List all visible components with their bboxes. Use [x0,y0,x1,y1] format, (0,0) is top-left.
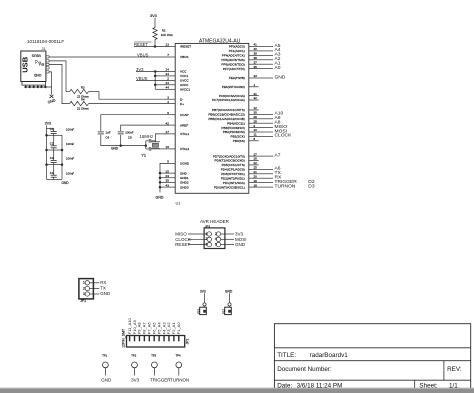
wire bus to VCC1 pin 34 [155,75,169,77]
title block row divider 2 [274,360,470,362]
title block outer frame [274,324,470,391]
junction rung1 left [45,134,48,137]
svg-text:40: 40 [254,47,258,51]
connector JP3 pin 2 circle [216,232,220,236]
svg-text:A7: A7 [275,152,281,158]
svg-text:10118194-0001LF: 10118194-0001LF [27,39,64,44]
wire / net label GND at U1 pin 33 [259,74,286,80]
wire F12 to mini connector JP5 [229,293,231,303]
svg-text:PF1(ADC1): PF1(ADC1) [229,49,245,53]
junction 3V3 bus at AVCC [154,84,157,87]
svg-text:C8: C8 [128,136,132,140]
svg-text:GND: GND [101,377,112,382]
wire VBUS to UVCC pin 2 [136,79,170,81]
svg-text:PD3(INT3/TXD1): PD3(INT3/TXD1) [221,172,245,176]
wire rung 3 [47,164,63,166]
svg-text:C1: C1 [50,127,54,131]
U1 pin 39 PF4(ADC4/TCK) stub and number [222,52,259,58]
wire XTAL2 from U1 pin 16 [155,148,169,150]
svg-text:100nF: 100nF [125,131,133,135]
svg-text:PB3(PDO/MISO): PB3(PDO/MISO) [221,126,244,130]
wire / net label A7 at U1 pin 27 [259,152,281,158]
svg-text:31: 31 [254,92,258,96]
U1 pin 36 PF7(ADC7/TDI) stub and number [223,65,259,71]
svg-text:PF4(ADC4/TCK): PF4(ADC4/TCK) [222,54,245,58]
svg-text:37: 37 [254,60,258,64]
junction ground rail at crystal [145,144,148,147]
svg-text:GND: GND [225,289,233,293]
svg-text:MISO: MISO [175,232,187,237]
wire / net label A8 at U1 pin 28 [259,120,281,126]
svg-text:14: 14 [166,68,170,72]
wire rung 4 bottom [47,178,63,180]
svg-text:PD6(T1/ADC9/OC4D): PD6(T1/ADC9/OC4D) [215,159,245,163]
svg-text:2: 2 [215,232,217,236]
svg-text:TITLE:: TITLE: [277,352,296,359]
wire rung 2 [47,149,63,151]
U1 pin 35 GND2 stub and number [166,179,189,185]
svg-text:GND: GND [180,171,188,175]
U1 pin 29 PB5(OC1A/ADC12/OC4B) stub and number [208,115,258,121]
svg-text:XTAL1: XTAL1 [180,132,190,136]
svg-text:2: 2 [83,286,85,290]
svg-text:GND1: GND1 [180,176,189,180]
U1 pin 33 PE2(/HWB) stub and number [229,74,259,80]
svg-text:33: 33 [254,74,258,78]
svg-text:PD7(OC4D/ADC10/T0): PD7(OC4D/ADC10/T0) [213,154,245,158]
wire bus to AVCC pin 24 [155,84,169,86]
connector JP2 pin F3_A2 stub [168,336,170,341]
title block row divider 1 [274,347,470,349]
svg-text:GND: GND [33,73,41,77]
resistor R4 22 Ohms [70,101,170,105]
U1 pin 25 PD4(ICP1/ADC8) stub and number [221,166,259,172]
U1 pin 27 PD7(OC4D/ADC10/T0) stub and number [213,152,259,158]
svg-text:D-: D- [180,97,183,101]
svg-text:Document Number:: Document Number: [277,366,332,373]
svg-text:VCC: VCC [180,70,187,74]
svg-text:29: 29 [254,115,258,119]
svg-text:PB4(ADC11): PB4(ADC11) [227,121,245,125]
junction rung3 left [45,163,48,166]
svg-text:10: 10 [254,128,258,132]
wire / net label MISO at U1 pin 9 [259,124,287,130]
wire / net label A0 at U1 pin 36 [259,65,281,71]
svg-text:1: 1 [83,281,85,285]
wire bus to GND2 pin 35 [160,181,170,183]
title block Sheet divider [414,380,416,391]
svg-text:TURNON: TURNON [275,183,296,189]
svg-text:17: 17 [166,130,170,134]
svg-text:JP1: JP1 [80,299,86,303]
svg-text:28: 28 [254,119,258,123]
wire rung 1 [47,134,63,136]
connector J1 pin 2 pad [46,60,49,62]
U1 pin 9 PB3(PDO/MISO) stub and number [221,124,258,130]
svg-text:TURNON: TURNON [170,377,189,382]
svg-text:/RESET: /RESET [180,45,191,49]
wire JP3 pin 6 to GND [221,244,234,246]
U1 pin 43 GND3 stub and number [166,183,189,189]
U1 pin 12 PB7(OC0A/OC1C/RTS) stub and number [212,106,259,112]
svg-text:C4: C4 [50,171,54,175]
svg-text:TP1: TP1 [102,354,107,358]
svg-text:42: 42 [166,121,170,125]
svg-text:F1_A0: F1_A0 [176,322,181,335]
svg-text:D+: D+ [180,102,184,106]
U1 pin 44 AVCC1 stub and number [166,86,191,92]
wire D+ from J1 to R4 [49,64,70,103]
junction 3V3 bus at VCC1 [154,75,157,78]
svg-text:100nF: 100nF [66,127,74,131]
svg-text:25: 25 [254,166,258,170]
wire bus to GND3 pin 43 [160,186,170,188]
wire JP1 pin 3 to GND [90,293,100,295]
svg-text:TP4: TP4 [176,354,181,358]
wire cap bank top jog [47,127,54,129]
wire / net label A1 at U1 pin 37 [259,61,281,67]
connector JP2 pin F1_A0 stub [178,336,180,341]
svg-text:UVCC: UVCC [180,79,190,83]
U1 pin 42 AREF stub and number [166,121,189,127]
svg-text:18: 18 [254,183,258,187]
U1 pin 30 PB6(OC1B/OC4B/ADC13) stub and number [208,111,258,117]
svg-text:35: 35 [166,179,170,183]
wire cap bank right rail [61,135,63,179]
wire / net label A3 at U1 pin 39 [259,52,281,58]
connector J1 pin 1 pad [46,56,49,58]
connector JP2 pin F6_A5 stub [153,336,155,341]
resistor R3 22 Ohms [66,89,99,93]
svg-text:radarBoardv1: radarBoardv1 [310,352,349,359]
connector JP2 pin F9_A8 stub [138,336,140,341]
svg-text:GND3: GND3 [180,185,189,189]
U1 pin 1 PE6(INT.6/AIN0) stub and number [222,83,259,89]
svg-text:PF5(ADC5/TMS): PF5(ADC5/TMS) [221,58,244,62]
junction rung2 right [61,149,64,152]
svg-text:GND: GND [62,181,70,185]
svg-text:AVCC1: AVCC1 [180,88,190,92]
junction rung2 left [45,149,48,152]
capacitor C2 100nF [51,135,57,150]
capacitor C7 load cap top [146,139,156,143]
U1 pin 34 VCC1 stub and number [166,72,189,78]
svg-text:PF0(ADC0): PF0(ADC0) [229,45,245,49]
U1 pin 28 PB4(ADC11) stub and number [227,119,259,125]
U1 pin 7 VBUS stub and number [167,53,188,59]
wire bus to GND1 pin 23 [160,177,170,179]
svg-text:3V3: 3V3 [150,14,157,18]
wire bus to GND pin 15 [160,172,170,174]
U1 pin 18 PD0(INT0/OC0B/SCL) stub and number [214,183,259,189]
svg-text:1uF: 1uF [106,131,111,135]
resistor R2 10K Ohm [153,28,157,40]
svg-text:PC6(OC3A/OC4A): PC6(OC3A/OC4A) [219,94,245,98]
wire load caps ground rail [145,141,147,149]
wire RESET to JP3 pin 5 [188,244,207,246]
connector JP4 pin 2 pad [203,310,206,313]
svg-text:ATMEGA32U4-AU: ATMEGA32U4-AU [199,39,241,45]
U1 pin 17 XTAL1 stub and number [166,130,190,136]
title block REV divider [443,361,445,381]
wire / net label MOSI at U1 pin 10 [259,128,287,134]
svg-text:PD2(INT2/RXD1): PD2(INT2/RXD1) [221,176,245,180]
svg-text:D3: D3 [308,183,315,189]
junction rung3 right [61,163,64,166]
svg-text:11: 11 [254,133,257,137]
connector J1 pin 4 pad [46,67,49,69]
junction at GND2 [159,181,162,184]
svg-text:TP2: TP2 [131,354,136,358]
svg-text:3V3: 3V3 [45,122,51,126]
wire AREF net from U1 pin 42 [121,125,170,131]
connector JP2 pin F7_A6 stub [148,336,150,341]
svg-text:26: 26 [254,157,258,161]
svg-text:100nF: 100nF [66,157,74,161]
U1 pin 8 PB0(SS) stub and number [233,137,259,143]
svg-text:4: 4 [215,237,217,241]
IC U1 ATMEGA32U4-AU microcontroller body [175,43,249,193]
svg-text:27: 27 [254,152,258,156]
svg-text:PD4(ICP1/ADC8): PD4(ICP1/ADC8) [221,168,245,172]
svg-text:GND: GND [111,147,119,151]
svg-text:JP2: JP2 [186,338,190,344]
svg-text:PB1(SCK): PB1(SCK) [231,135,245,139]
U1 pin 41 PF0(ADC0) stub and number [229,43,259,49]
wire / net label A5 at U1 pin 41 [259,43,281,49]
wire RESET net to U1 pin 13 [134,46,170,48]
svg-text:24: 24 [166,81,170,85]
svg-text:C3: C3 [50,156,54,160]
svg-text:U1: U1 [176,201,182,206]
svg-text:10K Ohm: 10K Ohm [161,33,174,37]
connector JP3 pin 4 circle [216,237,220,241]
svg-text:PD5(XCK1/CTS): PD5(XCK1/CTS) [222,163,245,167]
svg-text:100nF: 100nF [66,171,74,175]
U1 pin 5 UGND stub and number [167,160,190,166]
svg-text:AVCC: AVCC [180,83,189,87]
wire JP1 pin 1 to RX [90,282,100,284]
junction at GND pin 15 [159,172,162,175]
wire JP1 pin 2 to TX [90,287,100,289]
connector JP5 pin 1 circle [228,303,231,306]
svg-text:6: 6 [215,243,217,247]
svg-text:PB5(OC1A/ADC12/OC4B): PB5(OC1A/ADC12/OC4B) [208,117,244,121]
wire / net label A4 at U1 pin 40 [259,47,281,53]
power bus 3V3 vertical [154,72,156,90]
svg-text:23: 23 [166,174,170,178]
svg-text:PB6(OC1B/OC4B/ADC13): PB6(OC1B/OC4B/ADC13) [208,113,244,117]
svg-text:PE2(/HWB): PE2(/HWB) [229,76,245,80]
svg-text:PB0(SS): PB0(SS) [233,139,245,143]
connector JP3 pin 1 circle [207,232,211,236]
connector J1 pin 3 pad [46,63,49,65]
wire / net label A10 at U1 pin 30 [259,111,284,117]
U1 pin 37 PF6(ADC6/TDO) stub and number [221,60,258,66]
svg-text:39: 39 [254,52,258,56]
svg-text:MOSI: MOSI [235,237,247,242]
U1 pin 16 XTAL2 stub and number [166,145,190,151]
connector J1 USB body [21,51,46,82]
svg-text:3V3: 3V3 [235,232,244,237]
svg-text:36: 36 [254,65,258,69]
svg-text:GND: GND [235,242,246,247]
wire XTAL1 from U1 pin 17 [155,134,169,142]
svg-text:XTAL2: XTAL2 [180,147,190,151]
wire JP3 pin 4 to MOSI [221,238,234,240]
wire ground bus vertical [159,173,161,192]
U1 pin 24 AVCC stub and number [166,81,190,87]
svg-text:32: 32 [254,96,258,100]
svg-text:22 Ohms: 22 Ohms [77,106,89,110]
svg-text:CLOCK: CLOCK [275,133,293,139]
svg-text:3V3: 3V3 [131,377,140,382]
connector JP2 pin F4_A3 stub [163,336,165,341]
wire / net label A9 at U1 pin 29 [259,115,281,121]
wire / net label TX at U1 pin 21 [259,170,282,176]
U1 pin 21 PD3(INT3/TXD1) stub and number [221,170,258,176]
capacitor C3 100nF [51,150,57,165]
connector JP1 pin 3 circle [85,292,89,296]
svg-text:GND: GND [156,195,164,199]
wire UGND pin 5 to ground bus [160,163,170,173]
connector JP3 pin 6 circle [216,242,220,246]
net label RESET with overbar [134,42,152,47]
wire R2 to RESET net [154,40,156,47]
connector JP2 pin F2_A1 stub [173,336,175,341]
junction C5 ground [119,144,122,147]
svg-text:PD1(INT1/SDA): PD1(INT1/SDA) [223,181,245,185]
wire 3V3 to VCC pin 14 [136,71,170,73]
wire J1 GND pin to ground [49,72,52,95]
junction on RESET net [154,45,157,48]
capacitor C4 100nF [51,165,57,180]
U1 pin 6 UCAP stub and number [167,111,188,117]
svg-text:PB7(OC0A/OC1C/RTS): PB7(OC0A/OC1C/RTS) [212,108,245,112]
svg-text:43: 43 [166,183,170,187]
svg-text:PB2(PDI/MOSI): PB2(PDI/MOSI) [223,130,245,134]
title block row divider 3 [274,379,470,381]
svg-text:TP3: TP3 [151,354,156,358]
U1 pin 23 GND1 stub and number [166,174,189,180]
connector J1 shield pins [24,85,46,88]
connector JP1 body [79,279,94,299]
connector J1 pin 5 pad [46,71,49,73]
U1 pin 19 PD1(INT1/SDA) stub and number [223,179,259,185]
svg-text:VCC1: VCC1 [180,74,189,78]
wire CLOCK to JP3 pin 3 [188,238,207,240]
connector JP3 pin 3 circle [207,237,211,241]
svg-text:12PIN_SMT: 12PIN_SMT [122,328,126,348]
svg-text:VBUS: VBUS [180,55,188,59]
U1 pin 40 PF1(ADC1) stub and number [229,47,259,53]
wire / net label TRIGGER at U1 pin 19 [259,179,298,185]
svg-text:RESET: RESET [134,42,148,47]
svg-text:30: 30 [254,111,258,115]
svg-text:PC7(ICP3/CLK0/OC4A): PC7(ICP3/CLK0/OC4A) [212,98,245,102]
svg-text:F12: F12 [221,309,225,314]
connector JP2 pin F11_A10 stub [129,336,131,341]
junction 3V3 bus at VCC [154,70,157,73]
svg-text:RX: RX [100,280,106,285]
svg-text:GND2: GND2 [180,181,189,185]
svg-text:34: 34 [166,72,170,76]
wire VBUS net from J1 to U1 [49,56,170,58]
svg-text:R2: R2 [162,29,166,33]
wire C6 to ground rail [101,135,146,146]
svg-text:16MHz: 16MHz [140,134,154,139]
svg-text:VBUS: VBUS [137,52,149,57]
svg-text:16: 16 [166,145,170,149]
svg-text:UCAP: UCAP [180,113,189,117]
connector JP1 pin 1 circle [85,281,89,285]
svg-text:3: 3 [83,292,85,296]
U1 pin 15 GND stub and number [166,169,188,175]
svg-text:13: 13 [166,43,170,47]
svg-text:A0: A0 [275,65,281,71]
test point TP4 [176,362,182,376]
connector JP2 pin F10_A9 stub [134,336,136,341]
wire J1 shield row to ground drop [26,86,52,88]
svg-text:19: 19 [254,179,258,183]
svg-text:TRIGGER: TRIGGER [150,377,171,382]
wire F13 to mini connector JP4 [204,293,206,303]
svg-text:15: 15 [166,169,170,173]
svg-text:VBUS: VBUS [31,54,41,58]
U1 pin 32 PC7(ICP3/CLK0/OC4A) stub and number [212,96,259,102]
U1 pin 38 PF5(ADC5/TMS) stub and number [221,56,258,62]
test point TP1 [103,362,109,376]
connector JP3 pin 5 circle [207,242,211,246]
svg-text:F13: F13 [196,309,200,314]
svg-text:22: 22 [254,161,258,165]
svg-text:44: 44 [166,86,170,90]
svg-text:21: 21 [254,170,258,174]
svg-text:PF6(ADC6/TDO): PF6(ADC6/TDO) [221,62,244,66]
U1 pin 4 D+ stub and number [167,100,184,106]
svg-text:R4: R4 [81,98,85,102]
svg-text:PF7(ADC7/TDI): PF7(ADC7/TDI) [223,67,245,71]
U1 pin 13 /RESET stub and number [166,43,192,49]
junction at GND1 [159,177,162,180]
U1 pin 31 PC6(OC3A/OC4A) stub and number [219,92,259,98]
svg-text:Y1: Y1 [141,154,146,158]
svg-text:100nF: 100nF [66,142,74,146]
svg-text:38: 38 [254,56,258,60]
svg-text:20: 20 [254,174,258,178]
wire C5 to ground rail [120,135,122,146]
test point TP3 [152,362,158,376]
crystal Y1 16MHz [151,142,160,149]
wire JP3 pin 2 to 3V3 [221,233,234,235]
connector JP2 12PIN_SMT body [127,336,185,348]
wire / net label TURNON at U1 pin 18 [259,183,296,189]
connector JP3 body [204,228,225,249]
connector JP2 pin F8_A7 stub [143,336,145,341]
svg-text:UGND: UGND [180,162,190,166]
svg-text:C2: C2 [50,141,54,145]
connector JP1 pin 2 circle [85,286,89,290]
wire D- from J1 through R3 [49,61,66,92]
U1 pin 26 PD6(T1/ADC9/OC4D) stub and number [215,157,259,163]
wire 3V3 to R2 [154,18,156,28]
wire / net label A2 at U1 pin 38 [259,56,281,62]
U1 pin 3 D- stub and number [167,95,183,101]
U1 pin 14 VCC stub and number [166,68,188,74]
svg-text:12: 12 [254,106,258,110]
wire 3V3 down cap bank left rail [46,125,48,179]
U1 pin 20 PD2(INT2/RXD1) stub and number [221,174,259,180]
